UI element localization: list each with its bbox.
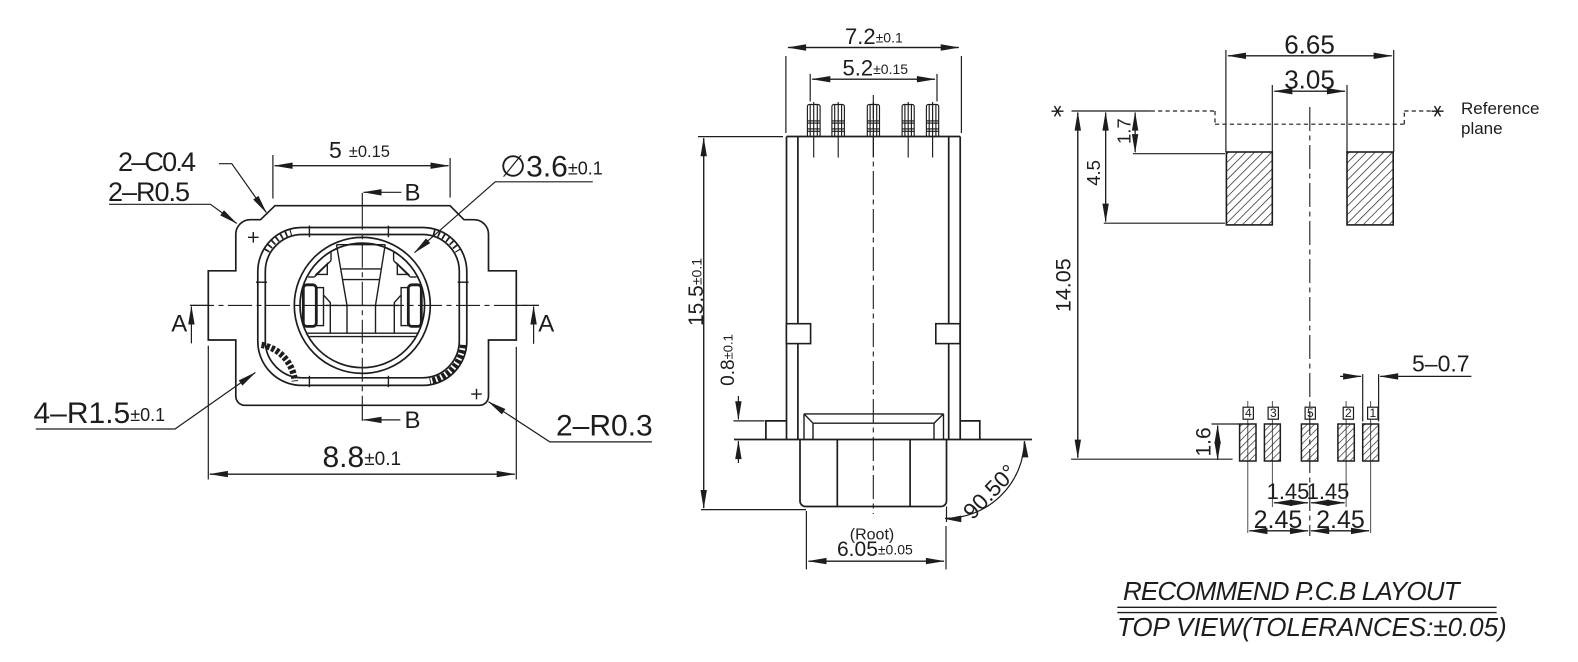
small pad 3 xyxy=(1264,424,1280,461)
pad number boxes xyxy=(1243,406,1378,420)
body outline with side tabs, chamfers C0.4 and corner radii xyxy=(208,206,516,406)
svg-text:2: 2 xyxy=(1345,406,1352,420)
seating plane line xyxy=(734,439,1032,441)
dim 4.5 xyxy=(1083,113,1225,224)
svg-text:3.05: 3.05 xyxy=(1284,65,1335,95)
dim 7.2±0.1 xyxy=(786,24,962,133)
right view centerline xyxy=(1309,107,1311,536)
big pad right xyxy=(1347,152,1393,225)
pin 4 xyxy=(902,102,914,158)
asterisk left xyxy=(1052,106,1064,116)
title: RECOMMEND P.C.B LAYOUT xyxy=(1117,576,1507,642)
svg-text:5.2±0.15: 5.2±0.15 xyxy=(843,56,909,81)
svg-text:2–C0.4: 2–C0.4 xyxy=(118,147,196,177)
small pad 2 xyxy=(1338,424,1354,461)
pin 3 xyxy=(867,102,879,158)
dim 1.45 1.45 xyxy=(1267,479,1350,504)
dim 14.05 xyxy=(1052,113,1233,460)
svg-text:A: A xyxy=(538,311,554,338)
reference plane dashed line xyxy=(1072,111,1434,124)
mounting lug left xyxy=(766,421,787,440)
svg-text:2–R0.5: 2–R0.5 xyxy=(108,177,189,207)
svg-text:1.45: 1.45 xyxy=(1267,479,1310,504)
svg-text:5–0.7: 5–0.7 xyxy=(1412,351,1470,377)
label Ø3.6±0.1 xyxy=(415,151,603,253)
pin 5 xyxy=(926,102,938,158)
mounting lug right xyxy=(960,421,980,440)
plus mark top-left xyxy=(248,232,259,243)
middle view centerline xyxy=(872,95,874,514)
plus mark bottom-right xyxy=(471,389,482,400)
svg-text:∅3.6±0.1: ∅3.6±0.1 xyxy=(500,151,603,184)
pin 2 xyxy=(832,102,845,158)
svg-text:6.65: 6.65 xyxy=(1284,30,1335,60)
latch block left wall xyxy=(786,324,810,344)
label 4-R1.5±0.1 xyxy=(34,373,256,430)
body side walls xyxy=(787,137,961,440)
dim 5.2±0.15 xyxy=(810,56,937,102)
svg-text:B: B xyxy=(405,407,421,434)
asterisk right xyxy=(1432,106,1444,116)
svg-text:90.50°: 90.50° xyxy=(958,460,1021,524)
svg-text:RECOMMEND P.C.B LAYOUT: RECOMMEND P.C.B LAYOUT xyxy=(1123,576,1462,606)
svg-text:14.05: 14.05 xyxy=(1052,258,1076,312)
svg-text:1: 1 xyxy=(1369,406,1376,420)
inner cavity rounded rect outer wall xyxy=(258,228,467,386)
small pad 4 xyxy=(1240,424,1256,461)
section A-A left marker xyxy=(171,305,208,343)
central tongue xyxy=(337,245,386,334)
svg-text:A: A xyxy=(171,311,187,338)
outer circle Ø3.6 xyxy=(294,237,430,373)
threaded root block xyxy=(800,440,947,507)
svg-text:3: 3 xyxy=(1270,406,1277,420)
svg-text:2.45: 2.45 xyxy=(1254,506,1303,534)
small pad center lines xyxy=(1248,401,1371,533)
right contact xyxy=(408,285,421,327)
dim (Root) 6.05±0.05 xyxy=(806,511,946,569)
dim 6.65 xyxy=(1226,30,1394,153)
dim 5±0.15 top xyxy=(273,137,450,199)
dim angle 90.50 xyxy=(945,441,1028,524)
label 2-R0.3 xyxy=(489,402,653,443)
svg-text:2–R0.3: 2–R0.3 xyxy=(556,409,653,442)
svg-text:0.8±0.1: 0.8±0.1 xyxy=(718,334,739,386)
corner hatch bands on cavity wall xyxy=(262,345,464,381)
section B-B top marker xyxy=(362,180,420,207)
svg-text:6.05±0.05: 6.05±0.05 xyxy=(837,538,913,561)
section B-B bottom marker xyxy=(362,405,420,434)
svg-text:4.5: 4.5 xyxy=(1083,160,1104,186)
dim 8.8±0.1 bottom xyxy=(208,346,516,480)
svg-text:7.2±0.1: 7.2±0.1 xyxy=(845,24,903,49)
svg-text:4–R1.5±0.1: 4–R1.5±0.1 xyxy=(34,397,166,430)
label 2-R0.5 xyxy=(108,177,237,224)
bottom chords inside circle xyxy=(307,332,418,334)
root right edge extension for angle xyxy=(946,507,948,523)
left contact xyxy=(303,285,316,327)
section A-A right marker xyxy=(516,305,554,343)
small pad 1 xyxy=(1363,424,1379,461)
dim 2.45 2.45 xyxy=(1249,506,1369,534)
svg-text:1.6: 1.6 xyxy=(1193,427,1216,456)
right guide wedge xyxy=(394,252,417,277)
dim 1.7 xyxy=(1114,113,1226,154)
svg-text:1.7: 1.7 xyxy=(1114,118,1135,144)
svg-text:5: 5 xyxy=(1307,406,1314,420)
wall tick marks xyxy=(308,226,310,238)
vertical centerline xyxy=(361,206,363,406)
inner cavity rounded rect inner wall xyxy=(265,235,459,378)
pin 1 xyxy=(807,102,820,158)
svg-text:TOP VIEW(TOLERANCES:±0.05): TOP VIEW(TOLERANCES:±0.05) xyxy=(1117,612,1507,642)
svg-text:plane: plane xyxy=(1461,119,1503,138)
svg-text:4: 4 xyxy=(1245,406,1252,420)
svg-text:2.45: 2.45 xyxy=(1316,506,1365,534)
dim 3.05 xyxy=(1272,65,1347,153)
collar flange xyxy=(804,414,944,440)
svg-text:5±0.15: 5±0.15 xyxy=(329,137,390,163)
svg-text:8.8±0.1: 8.8±0.1 xyxy=(323,441,402,474)
horizontal centerline xyxy=(190,304,539,306)
dim 15.5±0.1 left xyxy=(685,137,806,510)
label 2-C0.4 xyxy=(118,147,266,213)
dim 0.8±0.1 xyxy=(718,334,765,463)
svg-text:15.5±0.1: 15.5±0.1 xyxy=(685,258,708,326)
inner circle xyxy=(300,243,425,368)
svg-text:Reference: Reference xyxy=(1461,99,1539,118)
left guide wedge xyxy=(308,252,331,277)
svg-text:B: B xyxy=(405,180,421,207)
dim 1.6 xyxy=(1193,424,1240,460)
dim 5-0.7 xyxy=(1340,351,1471,422)
svg-text:1.45: 1.45 xyxy=(1307,479,1350,504)
latch block right wall xyxy=(936,324,960,344)
small pad 5 xyxy=(1301,424,1317,461)
big pad left xyxy=(1226,152,1272,225)
